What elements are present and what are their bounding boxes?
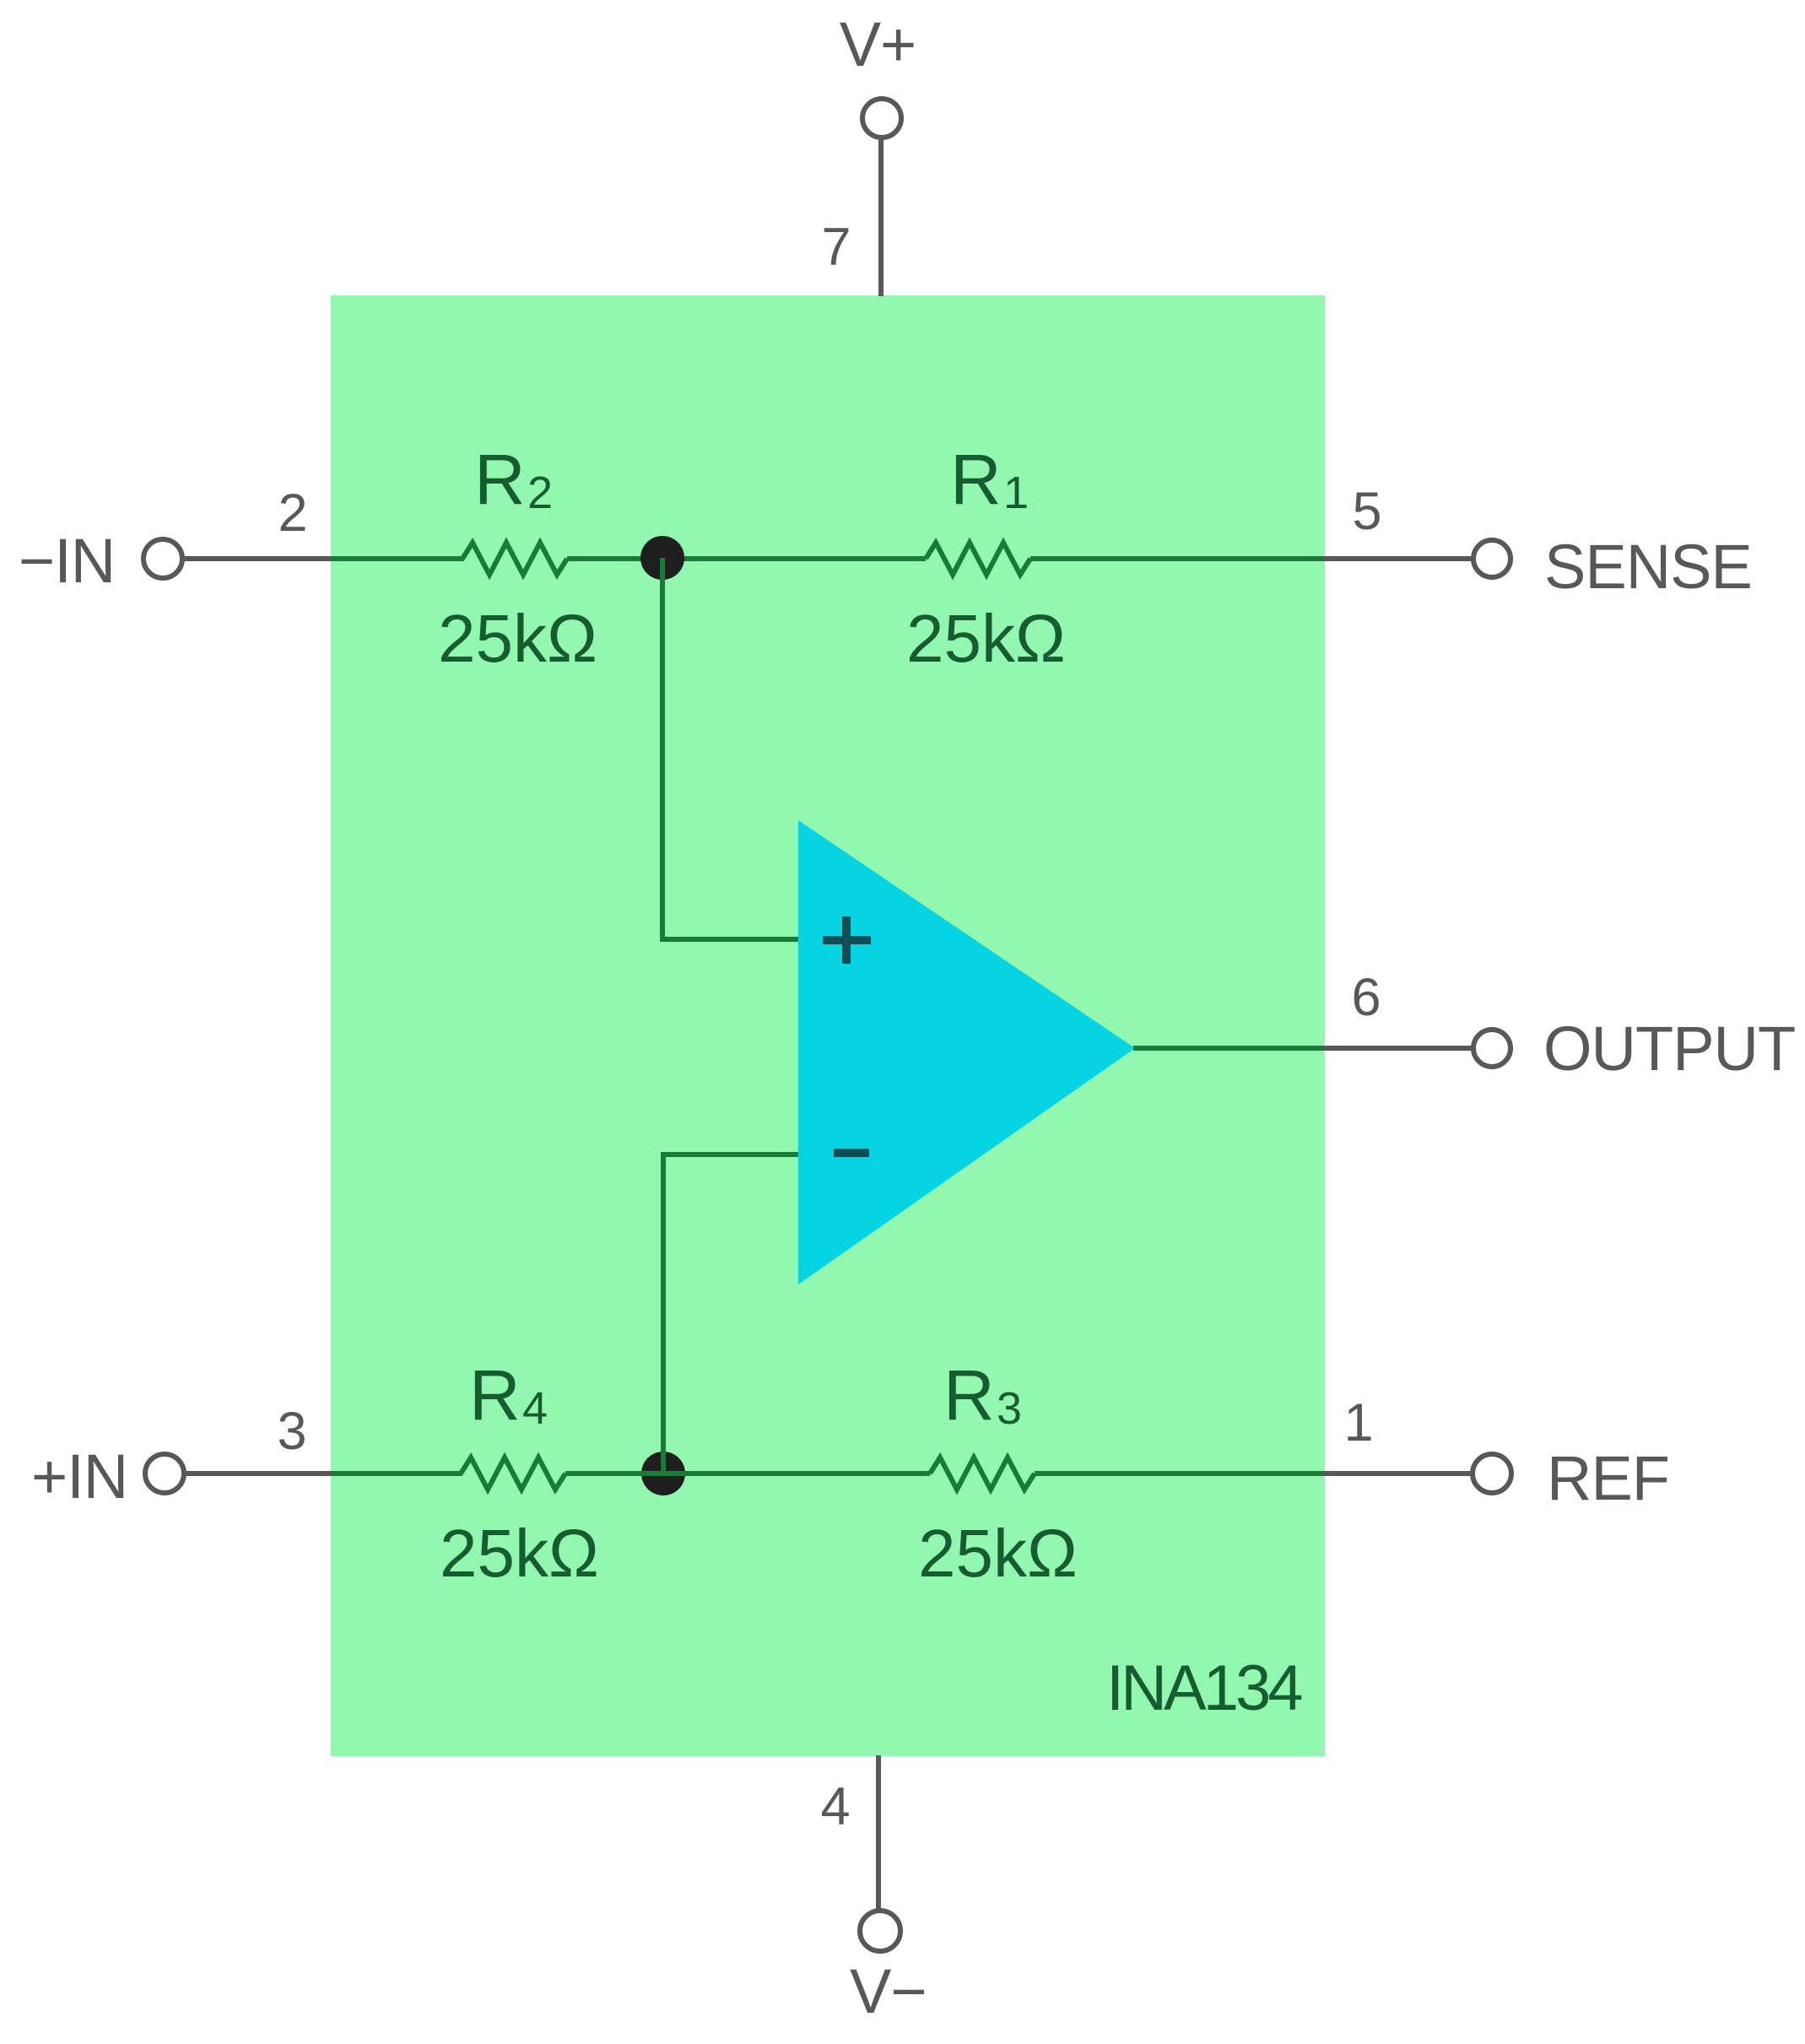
op-amp U1 (798, 820, 1135, 1284)
svg-text:REF: REF (1547, 1443, 1669, 1513)
svg-text:2: 2 (527, 468, 553, 518)
svg-text:2: 2 (278, 484, 307, 543)
svg-text:25kΩ: 25kΩ (438, 601, 597, 676)
svg-text:3: 3 (277, 1402, 306, 1461)
wire node B to R3 (663, 1471, 930, 1476)
svg-text:5: 5 (1352, 482, 1381, 541)
svg-text:OUTPUT: OUTPUT (1543, 1014, 1795, 1084)
svg-text:+IN: +IN (31, 1441, 127, 1511)
wire IC edge to R2 (331, 556, 464, 561)
wire R1 to IC edge (1030, 556, 1325, 561)
svg-text:1: 1 (1343, 1393, 1373, 1452)
IC body (INA134 green block) (331, 295, 1325, 1756)
svg-text:SENSE: SENSE (1544, 532, 1752, 602)
svg-text:25kΩ: 25kΩ (918, 1516, 1078, 1591)
svg-text:25kΩ: 25kΩ (906, 601, 1066, 676)
wire R2 to node A (567, 556, 662, 561)
svg-text:R: R (469, 1355, 521, 1435)
terminal OUTPUT (1473, 1030, 1510, 1067)
wire IC edge to SENSE terminal (1323, 556, 1473, 561)
wire R3 to IC edge (1035, 1471, 1325, 1476)
svg-text:4: 4 (820, 1777, 850, 1836)
svg-text:−IN: −IN (19, 526, 115, 596)
resistor R1 (926, 543, 1030, 575)
terminal -IN (143, 539, 182, 578)
svg-text:7: 7 (821, 218, 851, 277)
svg-text:R: R (474, 440, 526, 519)
wire node A down to + input (662, 558, 798, 939)
svg-text:R: R (950, 440, 1002, 519)
wire IC edge to R4 (332, 1471, 462, 1476)
wire node B up to - input (663, 1154, 798, 1474)
svg-text:V−: V− (850, 1956, 927, 2026)
wire R4 to node B (565, 1471, 663, 1476)
wire op-amp output to IC edge (1133, 1046, 1325, 1051)
wire V+ terminal to IC top (878, 138, 884, 296)
wire -IN terminal to IC edge (182, 556, 332, 561)
wire IC bottom to V- terminal (876, 1755, 881, 1911)
terminal SENSE (1473, 540, 1510, 577)
wire IC edge to REF terminal (1323, 1471, 1473, 1476)
op-amp noninverting input + symbol (823, 917, 871, 964)
svg-text:3: 3 (997, 1383, 1022, 1434)
wire node A to R1 (662, 556, 926, 561)
terminal V- (860, 1911, 900, 1951)
svg-text:INA134: INA134 (1106, 1652, 1302, 1724)
svg-text:25kΩ: 25kΩ (440, 1516, 599, 1591)
node A junction dot (640, 536, 684, 580)
svg-text:V+: V+ (840, 9, 916, 79)
wire +IN terminal to IC edge (184, 1471, 333, 1476)
terminal +IN (145, 1454, 184, 1493)
node B junction dot (641, 1452, 685, 1495)
resistor R4 (461, 1457, 565, 1490)
svg-text:R: R (943, 1355, 995, 1435)
wire IC edge to OUTPUT terminal (1323, 1046, 1473, 1051)
resistor R3 (930, 1457, 1035, 1490)
svg-text:4: 4 (522, 1383, 548, 1434)
terminal REF (1473, 1454, 1511, 1493)
op-amp inverting input - symbol (834, 1149, 869, 1157)
svg-text:1: 1 (1003, 468, 1029, 518)
svg-text:6: 6 (1351, 968, 1381, 1027)
terminal V+ (862, 99, 901, 138)
resistor R2 (462, 543, 567, 575)
